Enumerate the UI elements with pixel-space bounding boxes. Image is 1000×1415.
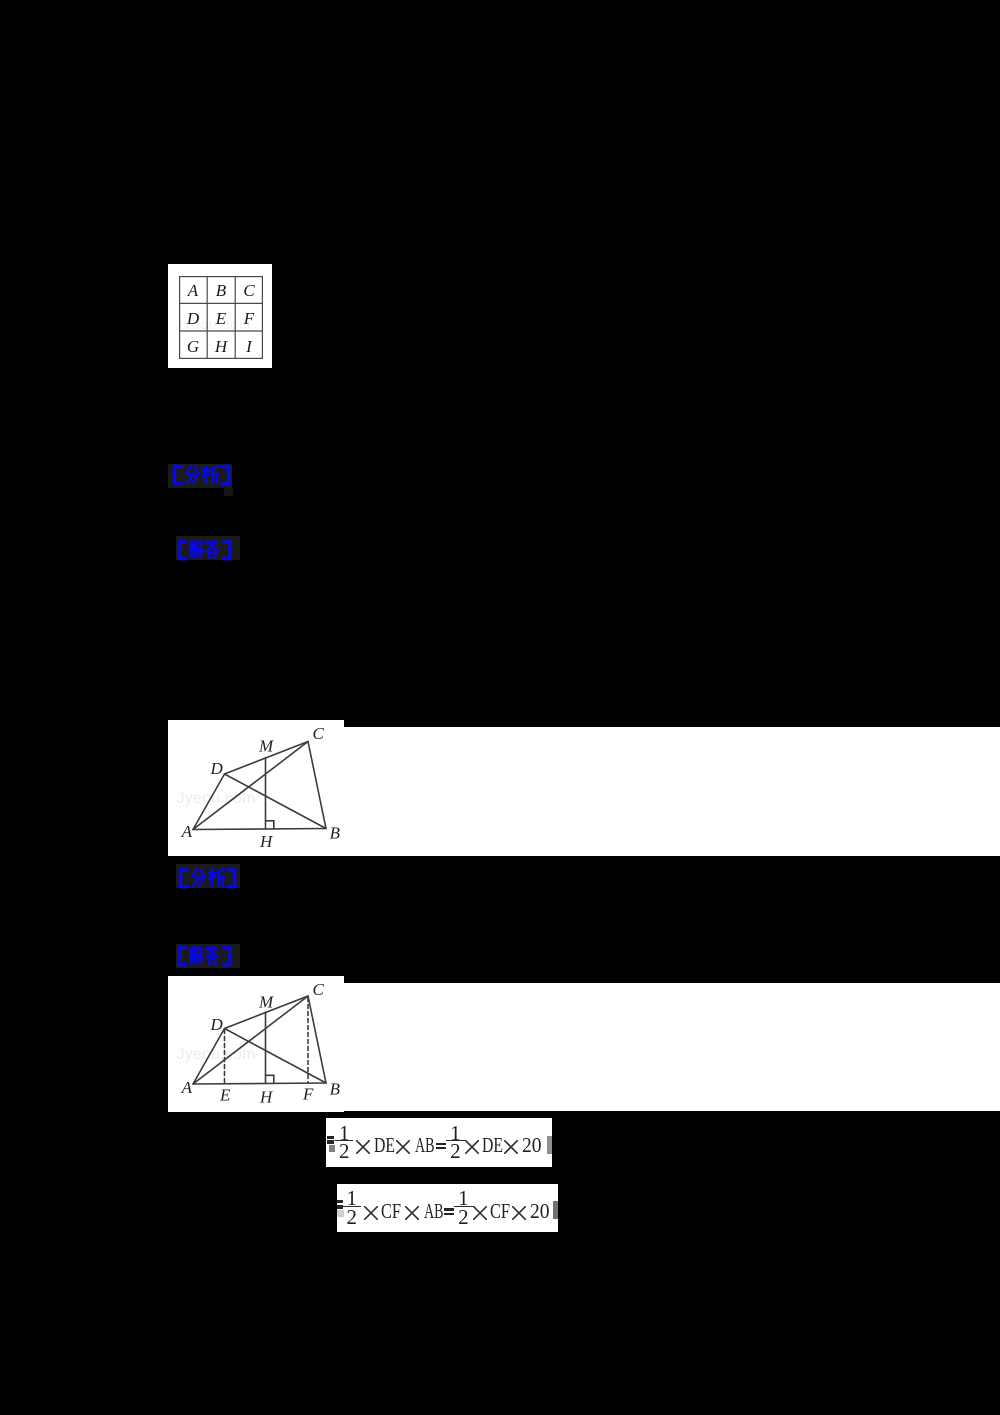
header 4 jieda (176, 944, 240, 968)
svg-text:C: C (313, 724, 325, 743)
figure 2 white box (168, 976, 344, 1112)
wire segment MH (265, 1012, 267, 1084)
right angle mark at H (266, 821, 274, 829)
header 3 fenxi (176, 864, 240, 888)
wire side AD (193, 774, 225, 830)
svg-text:H: H (259, 1088, 274, 1107)
svg-text:C: C (243, 281, 255, 300)
wire side AD (193, 1029, 225, 1085)
svg-text:F: F (302, 1085, 314, 1104)
watermark fig2 (177, 1046, 256, 1064)
wire side CB (308, 996, 326, 1083)
svg-text:D: D (210, 1015, 224, 1034)
wire side CB (308, 742, 326, 829)
svg-text:B: B (330, 1080, 341, 1099)
wire segment MH (265, 758, 267, 830)
watermark in table (176, 317, 252, 332)
svg-text:A: A (187, 281, 199, 300)
formula 2 box (337, 1184, 558, 1232)
table 3x3 image white box (168, 264, 272, 368)
formula 1 box (326, 1118, 552, 1167)
wire side DC (225, 742, 309, 775)
svg-text:M: M (258, 993, 274, 1012)
wire diagonal AC (193, 996, 308, 1084)
figure 1 band (right white strip) (344, 727, 1000, 856)
figure 2 drawing (168, 976, 344, 1112)
wire diagonal AC (193, 742, 308, 830)
svg-text:C: C (313, 980, 325, 999)
table grid (179, 276, 263, 359)
svg-text:E: E (215, 309, 227, 328)
svg-text:F: F (243, 309, 255, 328)
figure 1 drawing (168, 720, 344, 856)
svg-text:E: E (219, 1086, 231, 1105)
svg-text:D: D (186, 309, 200, 328)
wire side AB (193, 1083, 326, 1084)
svg-text:B: B (330, 824, 341, 843)
header 1 fenxi (168, 464, 232, 488)
wire side AB (193, 829, 326, 830)
svg-text:A: A (181, 822, 193, 841)
svg-text:B: B (216, 281, 227, 300)
svg-text:A: A (181, 1078, 193, 1097)
svg-text:M: M (258, 737, 274, 756)
svg-text:H: H (259, 832, 274, 851)
dashed segment CF (307, 998, 309, 1084)
wire side DC (225, 996, 309, 1029)
figure 1 white box (168, 720, 344, 856)
dashed segment DE (224, 1030, 226, 1084)
svg-text:G: G (187, 337, 199, 356)
right angle mark at H (266, 1075, 274, 1083)
svg-text:H: H (214, 337, 229, 356)
header 2 jieda (176, 536, 240, 560)
wire diagonal DB (225, 774, 327, 829)
wire diagonal DB (225, 1029, 327, 1084)
svg-text:I: I (245, 337, 253, 356)
svg-text:D: D (210, 759, 224, 778)
watermark fig1 (177, 790, 256, 808)
figure 2 band (right white strip) (344, 983, 1000, 1111)
